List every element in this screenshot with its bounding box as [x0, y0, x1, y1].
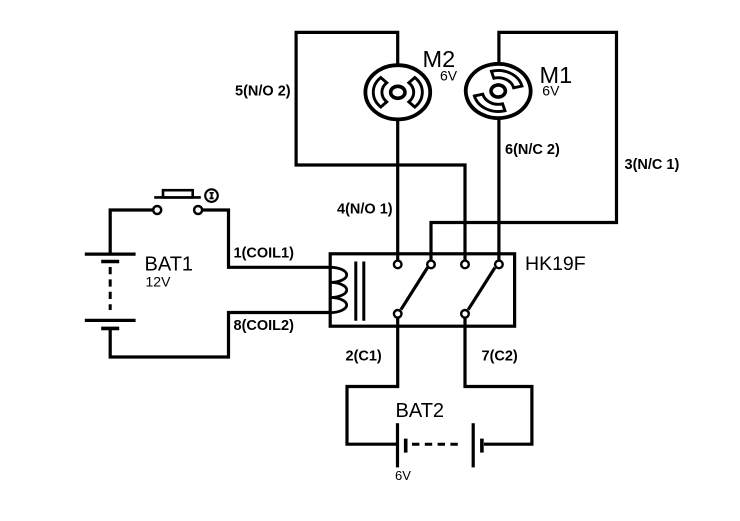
relay pin 7(C2) terminal [461, 310, 469, 318]
relay HK19F body box [330, 254, 514, 326]
svg-text:6V: 6V [542, 82, 560, 98]
pushbutton S1 momentary indicator circle [205, 189, 218, 202]
wire pushbutton right terminal to relay pin 1(COIL1) [202, 210, 330, 267]
wire BAT1 minus to relay pin 8(COIL2) [110, 313, 330, 358]
svg-text:12V: 12V [146, 274, 172, 290]
svg-text:3(N/C 1): 3(N/C 1) [625, 157, 680, 173]
svg-text:8(COIL2): 8(COIL2) [234, 318, 295, 334]
svg-text:7(C2): 7(C2) [482, 349, 518, 365]
relay pin 5(N/O 2) terminal [461, 261, 469, 269]
wire relay pin 2(C1) to BAT2 plus [347, 317, 398, 444]
relay pin 6(N/C 2) terminal [495, 261, 503, 269]
motor M1 body [454, 54, 543, 128]
svg-text:BAT1: BAT1 [145, 254, 194, 276]
pushbutton S1 indicator I-glyph [211, 193, 213, 199]
wire M2 top terminal to relay pin 5(N/O 2) [296, 32, 465, 260]
svg-text:5(N/O 2): 5(N/O 2) [235, 84, 291, 100]
wire relay pin 7(C2) to BAT2 minus [465, 317, 532, 444]
relay pin 4(N/O 1) terminal [394, 261, 402, 269]
battery BAT1 top cell short plate [101, 260, 119, 264]
battery BAT1 bottom cell long plate [85, 319, 136, 322]
wire M1 top terminal to relay pin 3(N/C 1) [431, 32, 617, 260]
battery BAT2 left cell short plate [404, 439, 408, 453]
battery BAT2 dashed cells link [412, 443, 461, 446]
relay coil windings [330, 267, 347, 312]
relay switch blade 1 [401, 268, 428, 310]
relay switch blade 2 [468, 268, 495, 310]
svg-text:2(C1): 2(C1) [346, 349, 382, 365]
motor M2 body [365, 65, 430, 119]
svg-text:4(N/O 1): 4(N/O 1) [337, 202, 393, 218]
wire M1 bottom terminal to relay pin 6(N/C 2) [497, 119, 500, 261]
pushbutton S1 left terminal [153, 206, 161, 214]
svg-text:1(COIL1): 1(COIL1) [234, 246, 295, 262]
battery BAT2 left cell long plate [396, 423, 399, 467]
battery BAT1 top cell long plate [85, 253, 136, 256]
pushbutton S1 right terminal [194, 206, 202, 214]
svg-text:HK19F: HK19F [525, 253, 586, 275]
relay pin 3(N/C 1) terminal [427, 261, 435, 269]
svg-text:6V: 6V [395, 468, 411, 483]
svg-text:6(N/C 2): 6(N/C 2) [505, 142, 560, 158]
battery BAT1 dashed cells link [109, 267, 112, 310]
pushbutton S1 actuator bar [154, 196, 201, 199]
relay coil core lines [356, 262, 364, 321]
svg-text:BAT2: BAT2 [396, 400, 445, 422]
wire BAT1 plus to pushbutton left terminal [110, 210, 153, 254]
battery BAT2 right cell short plate [480, 439, 484, 453]
relay pin 2(C1) terminal [394, 310, 402, 318]
battery BAT1 bottom cell short plate [101, 327, 119, 331]
battery BAT2 right cell long plate [472, 423, 475, 467]
pushbutton S1 cap [163, 190, 193, 197]
wire M2 bottom terminal to relay pin 4(N/O 1) [396, 121, 399, 261]
svg-text:6V: 6V [440, 67, 458, 83]
